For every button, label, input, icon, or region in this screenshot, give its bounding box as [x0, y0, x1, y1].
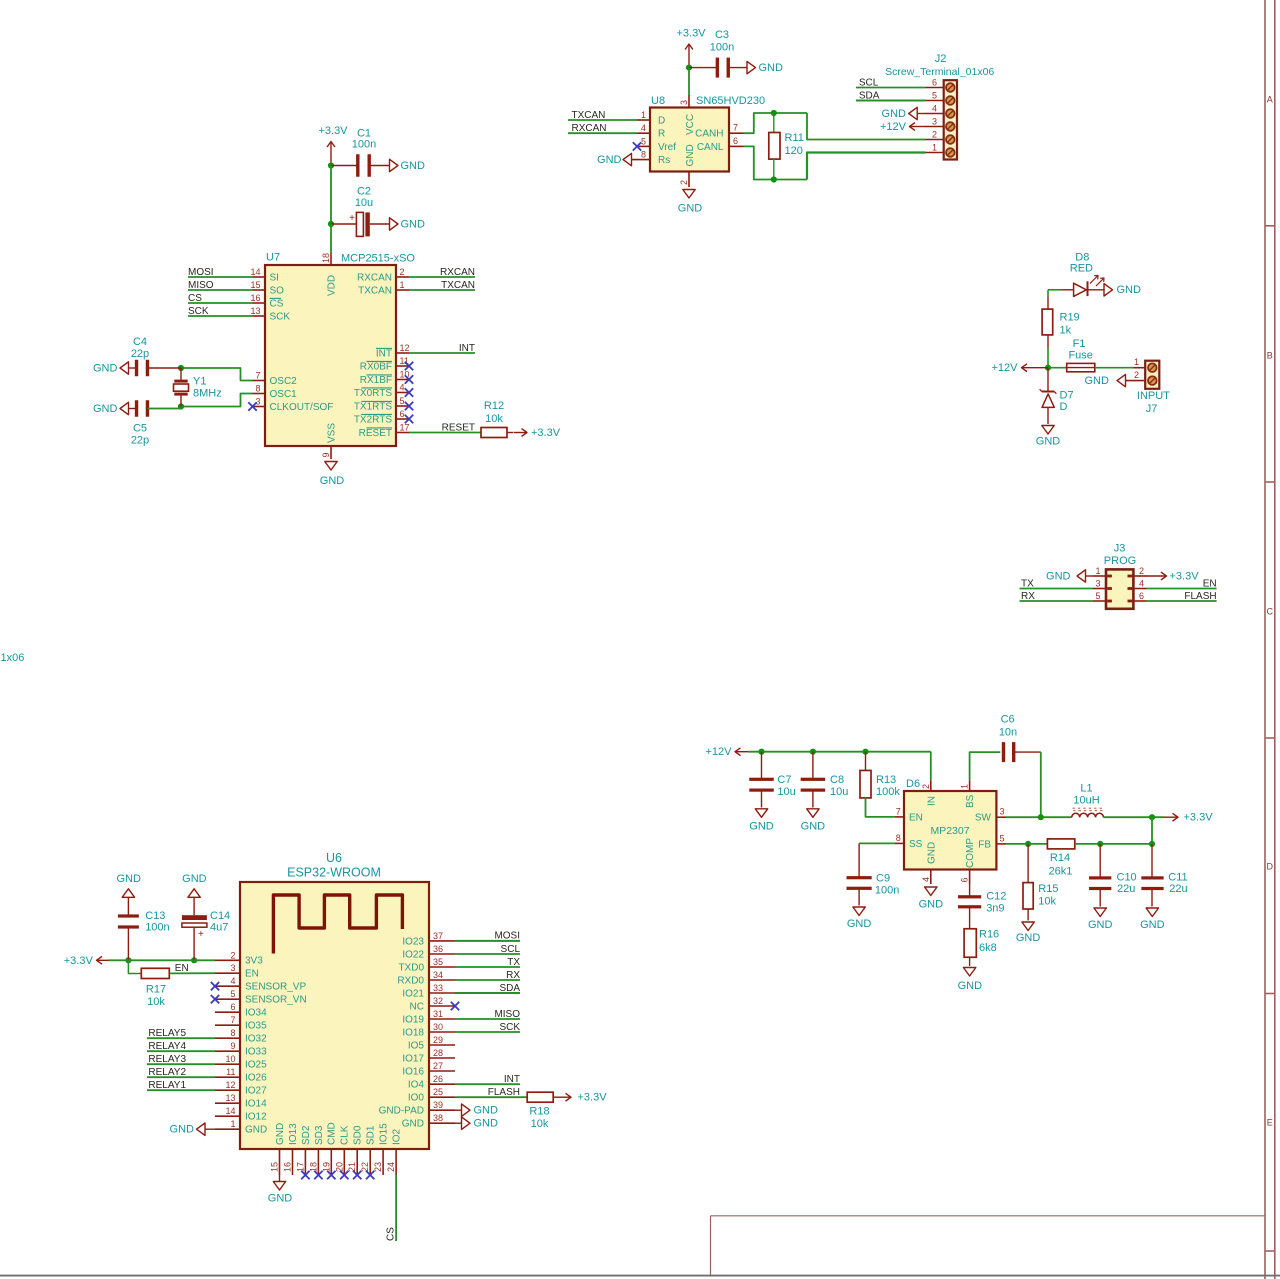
capacitor C6 10n bootstrap — [1002, 742, 1005, 762]
svg-text:Y1: Y1 — [193, 376, 206, 388]
wire output down to FB divider — [1151, 817, 1153, 844]
svg-text:J3: J3 — [1114, 543, 1126, 555]
svg-text:E: E — [1267, 1118, 1273, 1128]
svg-text:R19: R19 — [1060, 312, 1080, 324]
svg-text:INT: INT — [504, 1074, 520, 1085]
svg-text:12: 12 — [400, 343, 410, 353]
svg-text:C9: C9 — [876, 873, 890, 885]
svg-text:GND: GND — [882, 108, 907, 120]
wire BS to C6 — [970, 752, 1001, 780]
svg-text:R18: R18 — [529, 1106, 549, 1118]
svg-text:28: 28 — [433, 1048, 443, 1058]
svg-text:8: 8 — [230, 1028, 235, 1038]
U6 pin 38 GND — [429, 1122, 455, 1124]
svg-text:16: 16 — [250, 293, 260, 303]
svg-text:TX1RTS: TX1RTS — [354, 401, 392, 412]
connector J3 PROG body — [1106, 569, 1133, 608]
svg-text:GND: GND — [474, 1118, 499, 1130]
U6 pin 36 IO22 / net label SCL — [429, 953, 455, 955]
svg-text:PROG: PROG — [1104, 555, 1136, 567]
D6 pin 7 EN — [895, 816, 904, 818]
svg-text:D6: D6 — [906, 778, 920, 790]
svg-text:C6: C6 — [1001, 714, 1015, 726]
U6 pin 22 SD1 — [369, 1149, 371, 1175]
node rail junction C7 — [758, 749, 764, 755]
ground at C11 — [1146, 908, 1158, 917]
svg-text:GND: GND — [401, 160, 426, 172]
svg-text:7: 7 — [896, 806, 901, 816]
svg-text:2: 2 — [400, 267, 405, 277]
svg-text:GND: GND — [926, 842, 937, 864]
svg-text:GND: GND — [1088, 919, 1113, 931]
svg-text:6: 6 — [733, 136, 738, 146]
svg-text:R15: R15 — [1038, 883, 1058, 895]
U7 pin 11 RX0BF no-connect — [396, 365, 409, 367]
svg-text:9: 9 — [230, 1041, 235, 1051]
D6 pin 1 BS — [969, 780, 971, 791]
svg-text:CANL: CANL — [697, 142, 724, 153]
svg-text:5: 5 — [400, 396, 405, 406]
svg-text:18: 18 — [321, 253, 331, 263]
wire SS to C9 — [859, 842, 895, 844]
svg-text:TX2RTS: TX2RTS — [354, 414, 392, 425]
svg-text:IO17: IO17 — [402, 1053, 424, 1064]
U6 pin 25 IO0 — [429, 1096, 455, 1098]
U7 pin 13 SCK / net label SCK — [188, 315, 253, 317]
U6 pin 34 RXD0 / net label RX — [429, 979, 455, 981]
svg-text:RELAY5: RELAY5 — [148, 1028, 186, 1039]
capacitor C11 22u — [1151, 844, 1153, 878]
svg-text:GND: GND — [268, 1193, 293, 1205]
sheet frame right border — [1264, 0, 1266, 1279]
J7 pin 1 — [1134, 367, 1146, 369]
svg-text:GND: GND — [1140, 919, 1165, 931]
svg-text:SCL: SCL — [501, 944, 521, 955]
wire VCC to U8 pin 3 — [688, 68, 690, 95]
svg-text:RELAY4: RELAY4 — [148, 1041, 186, 1052]
J3 pins 1/2 — [1093, 575, 1106, 577]
svg-text:1: 1 — [641, 110, 646, 120]
svg-text:IO12: IO12 — [245, 1112, 267, 1123]
svg-text:8: 8 — [641, 150, 646, 160]
node VDD rail junction at C2 — [328, 221, 334, 227]
svg-text:EN: EN — [1203, 578, 1217, 589]
svg-text:1: 1 — [1134, 357, 1139, 367]
svg-text:IN: IN — [926, 796, 937, 806]
svg-text:R11: R11 — [785, 132, 804, 144]
svg-text:IO16: IO16 — [402, 1066, 424, 1077]
svg-text:15: 15 — [250, 280, 260, 290]
wire IO2 to net label CS — [395, 1175, 397, 1241]
power +12V flag — [1022, 367, 1049, 369]
wire CANH to R11 top rail — [744, 113, 808, 133]
svg-text:EN: EN — [909, 812, 923, 823]
svg-text:MISO: MISO — [188, 280, 214, 291]
svg-text:RXCAN: RXCAN — [440, 267, 475, 278]
U6 pin 8 IO32 / net label RELAY5 — [215, 1037, 240, 1039]
svg-text:1k: 1k — [1060, 325, 1072, 337]
J2 pin 3 — [926, 126, 944, 128]
svg-text:GND: GND — [685, 144, 696, 166]
capacitor C4 22p — [148, 367, 181, 369]
ground at D7 — [1042, 426, 1054, 435]
svg-text:9: 9 — [321, 452, 331, 457]
svg-text:10n: 10n — [999, 727, 1017, 739]
svg-text:6: 6 — [230, 1002, 235, 1012]
svg-text:SCK: SCK — [188, 306, 209, 317]
svg-text:NC: NC — [410, 1001, 424, 1012]
svg-text:IO27: IO27 — [245, 1086, 267, 1097]
U6 pin 11 IO26 / net label RELAY2 — [215, 1076, 240, 1078]
svg-text:C2: C2 — [357, 186, 371, 198]
svg-text:3: 3 — [1000, 807, 1005, 817]
svg-text:VDD: VDD — [327, 275, 338, 296]
U7 pin 9 VSS / ground — [330, 446, 332, 459]
diode D7 protection — [1047, 368, 1049, 392]
U6 pin 33 IO21 / net label SDA — [429, 992, 455, 994]
fuse F1 — [1048, 367, 1067, 369]
svg-text:GND: GND — [847, 918, 872, 930]
U6 pin 18 SD3 — [317, 1149, 319, 1175]
U6 pin 12 IO27 / net label RELAY1 — [215, 1089, 240, 1091]
wire bottom rail to J2 pin 1 — [807, 153, 926, 180]
wire CANL to R11 bottom rail — [744, 146, 808, 179]
svg-text:+3.3V: +3.3V — [1170, 571, 1200, 583]
svg-text:10u: 10u — [830, 786, 848, 798]
svg-text:A: A — [1267, 95, 1273, 105]
svg-text:CS: CS — [386, 1227, 397, 1241]
svg-text:3: 3 — [932, 117, 937, 127]
svg-text:MOSI: MOSI — [494, 931, 520, 942]
svg-text:31: 31 — [433, 1009, 443, 1019]
net label EN wire to J3 pin 4 — [1147, 588, 1217, 590]
svg-text:10k: 10k — [1038, 895, 1056, 907]
svg-text:RX0BF: RX0BF — [360, 361, 392, 372]
ground at D8 — [1104, 284, 1113, 296]
ground at C9 — [853, 907, 865, 916]
U6 pin 35 TXD0 / net label TX — [429, 966, 455, 968]
node VDD rail junction at C1 — [328, 162, 334, 168]
svg-text:1: 1 — [1095, 566, 1100, 576]
U6 pin 16 IO13 — [292, 1149, 294, 1175]
svg-text:IO15: IO15 — [379, 1123, 390, 1145]
ground at J3 pin 1 — [1086, 575, 1094, 577]
U7 pin 12 INT / net label INT — [396, 352, 409, 354]
svg-text:3n9: 3n9 — [986, 903, 1004, 915]
svg-text:GND: GND — [275, 1123, 286, 1145]
resistor R17 10k EN pullup — [128, 960, 141, 973]
ground at C3 — [747, 61, 756, 73]
ground at J2 pin 4 — [917, 113, 925, 115]
D6 pin 6 COMP — [969, 870, 971, 885]
svg-text:R17: R17 — [146, 984, 166, 996]
svg-text:+12V: +12V — [880, 121, 907, 133]
svg-text:J7: J7 — [1146, 403, 1158, 415]
svg-text:TXCAN: TXCAN — [441, 280, 475, 291]
power +3.3V at R12 — [507, 432, 514, 434]
svg-text:RED: RED — [1070, 263, 1093, 275]
inductor L1 10uH — [1072, 813, 1080, 817]
svg-text:39: 39 — [433, 1100, 443, 1110]
svg-text:10k: 10k — [147, 996, 165, 1008]
resistor R14 26k1 — [1047, 839, 1074, 849]
wire SW to L1 — [1006, 816, 1072, 818]
ESP32 antenna symbol — [273, 895, 402, 954]
svg-text:GND: GND — [1036, 436, 1061, 448]
svg-text:22u: 22u — [1169, 883, 1187, 895]
wire FB line — [1006, 843, 1047, 845]
U7 pin 2 RXCAN / net label RXCAN — [396, 276, 409, 278]
title block outline — [711, 1215, 1266, 1217]
svg-text:EN: EN — [175, 963, 189, 974]
svg-text:RX1BF: RX1BF — [360, 375, 392, 386]
D6 pin 4 GND / ground — [930, 870, 932, 885]
svg-text:10uH: 10uH — [1073, 795, 1099, 807]
svg-text:120: 120 — [785, 145, 803, 157]
svg-text:32: 32 — [433, 996, 443, 1006]
capacitor C8 10u — [812, 752, 814, 780]
U6 pin 26 IO4 / net label INT — [429, 1083, 455, 1085]
J2 pin 2 — [926, 139, 944, 141]
svg-text:GND: GND — [1117, 284, 1142, 296]
svg-text:+3.3V: +3.3V — [531, 427, 561, 439]
svg-text:22p: 22p — [131, 348, 149, 360]
svg-text:IO18: IO18 — [402, 1027, 424, 1038]
svg-text:RELAY1: RELAY1 — [148, 1080, 186, 1091]
node rail junction R13 — [862, 749, 868, 755]
D6 pin 3 SW — [996, 816, 1006, 818]
svg-text:1: 1 — [960, 784, 970, 789]
svg-text:D: D — [1267, 862, 1274, 872]
svg-text:GND: GND — [245, 1125, 267, 1136]
svg-text:GND: GND — [474, 1105, 499, 1117]
svg-text:U8: U8 — [651, 95, 665, 107]
svg-text:IO25: IO25 — [245, 1060, 267, 1071]
svg-text:C12: C12 — [986, 891, 1006, 903]
svg-text:SS: SS — [909, 839, 923, 850]
svg-text:Screw_Terminal_01x06: Screw_Terminal_01x06 — [885, 66, 994, 78]
svg-text:11: 11 — [226, 1067, 235, 1077]
svg-text:TXCAN: TXCAN — [572, 110, 606, 121]
ground at C2 — [390, 218, 399, 230]
resistor R15 10k — [1027, 844, 1029, 883]
svg-text:19: 19 — [321, 1162, 331, 1172]
svg-text:MISO: MISO — [494, 1009, 520, 1020]
svg-text:OSC1: OSC1 — [270, 389, 298, 400]
U6 pin 17 SD2 — [304, 1149, 306, 1175]
svg-text:8: 8 — [255, 384, 260, 394]
svg-text:37: 37 — [433, 931, 443, 941]
svg-text:4: 4 — [921, 877, 931, 882]
J2 pin 6 — [926, 87, 944, 89]
svg-text:CS: CS — [188, 293, 202, 304]
J2 pin 5 — [926, 100, 944, 102]
power +12V at J2 pin 3 — [910, 126, 926, 128]
svg-text:10: 10 — [225, 1054, 235, 1064]
svg-text:4: 4 — [1139, 579, 1144, 589]
svg-text:5: 5 — [230, 989, 235, 999]
svg-text:14: 14 — [250, 267, 260, 277]
svg-text:4: 4 — [932, 104, 937, 114]
svg-text:IO33: IO33 — [245, 1047, 267, 1058]
svg-text:GND: GND — [170, 1124, 195, 1136]
net label FLASH / resistor R18 10k to +3.3V — [455, 1096, 527, 1098]
wire C5 to crystal bottom — [148, 407, 181, 409]
U7 pin 7 OSC2 — [253, 380, 266, 382]
svg-text:IO5: IO5 — [408, 1040, 425, 1051]
U7 pin 5 TX1RTS no-connect — [396, 405, 409, 407]
module U6 ESP32-WROOM body — [240, 882, 429, 1149]
ground at C8 — [807, 809, 819, 818]
IC U8 SN65HVD230 body — [650, 108, 729, 172]
svg-text:100n: 100n — [875, 884, 899, 896]
node SW junction — [1038, 814, 1044, 820]
svg-text:SD1: SD1 — [366, 1125, 377, 1145]
svg-text:MOSI: MOSI — [188, 267, 214, 278]
svg-text:SW: SW — [975, 813, 992, 824]
svg-text:COMP: COMP — [965, 838, 976, 868]
J3 pins 5/6 — [1093, 600, 1106, 602]
svg-text:2: 2 — [679, 180, 689, 185]
svg-text:5: 5 — [932, 91, 937, 101]
svg-text:4: 4 — [400, 383, 405, 393]
U6 pin 20 CLK — [343, 1149, 345, 1175]
resistor R16 6k8 — [964, 929, 976, 958]
U6 pin 21 SD0 — [356, 1149, 358, 1175]
svg-text:MP2307: MP2307 — [930, 825, 969, 837]
svg-text:RESET: RESET — [359, 428, 392, 439]
svg-text:B: B — [1267, 351, 1273, 361]
svg-text:IO19: IO19 — [402, 1014, 424, 1025]
svg-text:7: 7 — [733, 123, 738, 133]
svg-text:F1: F1 — [1073, 338, 1086, 350]
window bottom edge — [0, 1275, 1280, 1277]
svg-text:8: 8 — [896, 833, 901, 843]
svg-text:Rs: Rs — [658, 155, 670, 166]
wire crystal to OSC2 — [181, 368, 253, 381]
svg-text:17: 17 — [295, 1162, 305, 1172]
svg-text:21: 21 — [347, 1162, 357, 1172]
U6 pin 10 IO25 / net label RELAY3 — [215, 1063, 240, 1065]
svg-text:CS: CS — [270, 298, 284, 309]
svg-text:IO35: IO35 — [245, 1021, 267, 1032]
svg-text:20: 20 — [334, 1162, 344, 1172]
svg-text:R: R — [658, 129, 665, 140]
svg-text:+3.3V: +3.3V — [578, 1092, 608, 1104]
svg-text:GND: GND — [93, 363, 118, 375]
capacitor C7 10u — [761, 752, 763, 780]
svg-text:SCK: SCK — [270, 311, 291, 322]
svg-text:IO32: IO32 — [245, 1034, 267, 1045]
svg-text:RELAY3: RELAY3 — [148, 1054, 186, 1065]
svg-text:C5: C5 — [133, 423, 147, 435]
svg-text:INPUT: INPUT — [1137, 390, 1170, 402]
svg-text:+: + — [349, 213, 355, 224]
svg-text:RX: RX — [1021, 591, 1035, 602]
svg-text:27: 27 — [433, 1061, 443, 1071]
svg-text:FLASH: FLASH — [488, 1087, 520, 1098]
wire L1 to +3.3V output — [1103, 816, 1164, 818]
U6 pin 24 IO2 — [395, 1149, 397, 1175]
svg-text:+3.3V: +3.3V — [676, 28, 706, 40]
svg-text:GND: GND — [1016, 932, 1041, 944]
svg-text:33: 33 — [433, 983, 443, 993]
U6 pin 13 IO14 — [215, 1102, 240, 1104]
node R11 top junction — [771, 110, 777, 116]
svg-text:13: 13 — [250, 306, 260, 316]
svg-text:IO2: IO2 — [392, 1128, 403, 1145]
U8 pin 6 CANL — [729, 145, 744, 147]
svg-text:IO0: IO0 — [408, 1093, 425, 1104]
D6 pin 5 FB — [996, 843, 1006, 845]
U7 pin 8 OSC1 — [253, 393, 266, 395]
U6 pin 37 IO23 / net label MOSI — [429, 940, 455, 942]
U6 pin 27 IO16 — [429, 1070, 455, 1072]
svg-text:2: 2 — [932, 130, 937, 140]
svg-text:U7: U7 — [266, 252, 280, 264]
svg-text:16: 16 — [283, 1162, 293, 1172]
svg-text:SN65HVD230: SN65HVD230 — [696, 95, 765, 107]
svg-text:SD3: SD3 — [314, 1125, 325, 1145]
svg-text:TXD0: TXD0 — [398, 962, 424, 973]
capacitor C9 100n soft-start — [858, 843, 860, 876]
svg-text:7: 7 — [255, 371, 260, 381]
svg-text:IO14: IO14 — [245, 1099, 267, 1110]
U8 pin 8 Rs / ground — [632, 159, 651, 161]
power +3.3V (U7 VDD) — [330, 142, 332, 166]
svg-text:+3.3V: +3.3V — [1184, 812, 1214, 824]
svg-text:SCL: SCL — [859, 77, 879, 88]
D6 pin 2 IN — [930, 780, 932, 791]
svg-text:R16: R16 — [979, 929, 999, 941]
svg-text:14: 14 — [225, 1106, 235, 1116]
svg-text:35: 35 — [433, 957, 443, 967]
svg-text:100n: 100n — [145, 922, 169, 934]
crystal Y1 8MHz — [178, 365, 184, 371]
svg-text:Fuse: Fuse — [1068, 350, 1092, 362]
U6 pin 32 NC — [429, 1005, 455, 1007]
U7 pin 3 CLKOUT/SOF no-connect — [253, 406, 266, 408]
svg-text:FB: FB — [978, 839, 991, 850]
svg-text:3V3: 3V3 — [245, 956, 263, 967]
wire VDD rail C1-C2 — [330, 166, 332, 225]
svg-text:10k: 10k — [531, 1118, 549, 1130]
svg-text:BS: BS — [965, 794, 976, 808]
svg-text:VSS: VSS — [327, 423, 338, 443]
ground at C10 — [1094, 908, 1106, 917]
svg-text:IO34: IO34 — [245, 1008, 267, 1019]
U6 pin 2 3V3 — [215, 959, 240, 961]
U6 pin 4 SENSOR_VP — [215, 985, 240, 987]
U6 pin 31 IO19 / net label MISO — [429, 1018, 455, 1020]
svg-text:+12V: +12V — [992, 362, 1019, 374]
svg-text:SD0: SD0 — [353, 1125, 364, 1145]
svg-text:SO: SO — [270, 285, 285, 296]
svg-text:30: 30 — [433, 1022, 443, 1032]
ground at C5 — [120, 402, 129, 414]
U6 pin 7 IO35 — [215, 1024, 240, 1026]
svg-text:10k: 10k — [485, 413, 503, 425]
svg-text:RXCAN: RXCAN — [357, 272, 392, 283]
svg-text:25: 25 — [433, 1087, 443, 1097]
U6 pin 15 GND — [279, 1149, 281, 1175]
U8 pin 5 Vref no-connect — [637, 145, 650, 147]
svg-text:2: 2 — [1139, 566, 1144, 576]
capacitor C1 100n — [331, 165, 358, 167]
svg-text:5: 5 — [1000, 833, 1005, 843]
svg-text:5: 5 — [1095, 591, 1100, 601]
wire crystal to OSC1 — [181, 394, 253, 407]
